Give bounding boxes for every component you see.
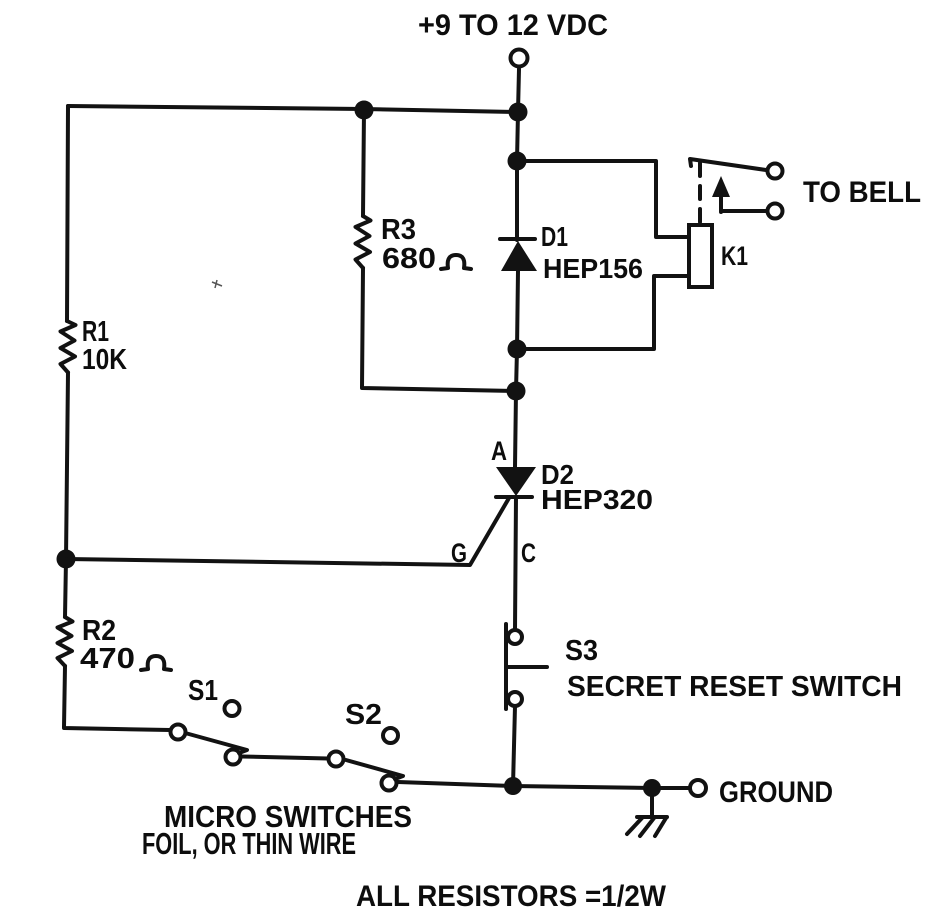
label ohm symbol R2 [141, 656, 171, 670]
relay contact arrow [712, 176, 730, 212]
svg-text:HEP156: HEP156 [543, 253, 643, 284]
svg-text:R3: R3 [381, 214, 416, 246]
node junction top rail R3 branch [355, 101, 374, 120]
wire left rail lower [65, 559, 66, 617]
svg-text:K1: K1 [721, 241, 748, 271]
wire left rail bottom [64, 666, 170, 730]
switch S1 [171, 701, 248, 765]
wire bell bottom [721, 209, 766, 213]
node junction bottom rail S3 [504, 777, 522, 795]
node junction top rail supply [509, 103, 528, 122]
thyristor D2 [496, 467, 536, 497]
label ohm symbol R3 [441, 255, 471, 269]
svg-text:680: 680 [382, 243, 436, 275]
wire supply drop [517, 69, 519, 240]
svg-text:D1: D1 [541, 221, 568, 252]
wire D1 to junctions [515, 271, 518, 467]
ink speck [212, 280, 222, 288]
svg-text:10K: 10K [82, 344, 127, 376]
wire relay top branch [517, 161, 689, 237]
svg-text:S3: S3 [565, 635, 598, 667]
node junction R3 bottom [507, 382, 526, 401]
svg-text:C: C [521, 538, 536, 568]
svg-text:470: 470 [80, 643, 135, 675]
resistor R1 [61, 321, 76, 373]
ground [627, 797, 667, 836]
switch S2 [329, 728, 404, 791]
wire bottom rail [398, 782, 690, 788]
switch S3 [506, 624, 547, 709]
wire cathode to S3 [515, 497, 516, 630]
resistor R3 [356, 110, 518, 391]
svg-text:SECRET RESET SWITCH: SECRET RESET SWITCH [567, 671, 902, 703]
svg-text:ALL RESISTORS =1/2W: ALL RESISTORS =1/2W [356, 880, 667, 911]
svg-text:FOIL, OR THIN WIRE: FOIL, OR THIN WIRE [142, 826, 356, 861]
svg-text:S1: S1 [188, 675, 218, 707]
diode D1 [500, 239, 537, 271]
wire relay actuator dashed [698, 163, 702, 222]
svg-text:GROUND: GROUND [719, 776, 833, 809]
svg-text:+9 TO 12 VDC: +9 TO 12 VDC [418, 9, 608, 42]
svg-text:HEP320: HEP320 [541, 484, 653, 515]
resistor R2 [58, 617, 73, 666]
wire left rail middle [66, 373, 68, 560]
svg-text:S2: S2 [345, 699, 382, 731]
terminal supply [511, 50, 528, 67]
wire relay bottom branch [517, 276, 689, 349]
terminal bell bottom [768, 204, 783, 219]
wire gate run [66, 498, 509, 565]
terminal ground [690, 780, 706, 796]
node junction D1 top branch [508, 152, 527, 171]
svg-text:G: G [451, 538, 467, 568]
svg-text:A: A [491, 436, 507, 466]
relay K1 coil [689, 225, 712, 287]
wire top rail [68, 106, 518, 112]
wire S3 to bottom rail [513, 706, 515, 786]
terminal bell top [768, 164, 783, 179]
node junction gate left rail [57, 550, 76, 569]
node junction bottom rail ground [643, 779, 661, 797]
relay contact arm [690, 159, 766, 170]
wire left rail upper [67, 106, 68, 321]
wire S1 to S2 [242, 757, 328, 759]
node junction D1 bottom branch [508, 340, 527, 359]
svg-text:TO BELL: TO BELL [803, 176, 921, 209]
